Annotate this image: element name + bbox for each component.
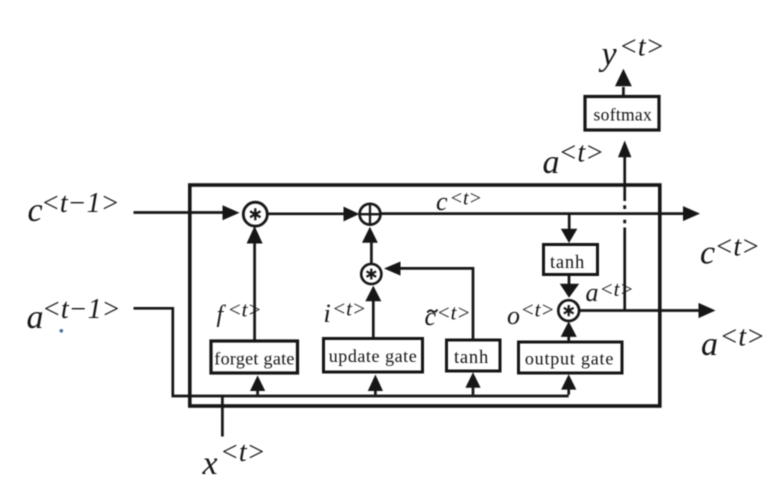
svg-text:<t>: <t> — [715, 232, 761, 263]
label: c^<t-1> (left input) — [28, 188, 120, 229]
wire: candidate tanh up and left into *2 — [384, 262, 473, 341]
label: a^<t> (small, at *3) — [586, 277, 634, 307]
svg-text:<t>: <t> — [521, 298, 555, 322]
svg-text:x: x — [202, 445, 218, 482]
box: softmax — [585, 97, 659, 131]
label: a^<t-1> (left input) — [27, 294, 121, 336]
svg-text:<t−1>: <t−1> — [41, 188, 119, 219]
wire: update gate up to *2 — [365, 286, 381, 339]
wire: a^<t> output line to right arrow — [579, 303, 715, 318]
label: c-tilde^<t> (candidate) — [425, 301, 471, 332]
box: tanh (right, cell output) — [544, 245, 598, 275]
svg-text:<t>: <t> — [332, 297, 366, 321]
label: o^<t> (output activation) — [507, 298, 555, 331]
wire: *1 to plus node — [267, 207, 359, 222]
node: multiply *2 — [361, 264, 381, 284]
box: tanh (candidate) — [447, 340, 501, 371]
wire: x^<t> input up to bus — [221, 396, 224, 437]
wire: output gate up to *3 — [561, 321, 577, 342]
box: forget gate — [211, 341, 298, 373]
wire: bus arrow into output gate — [561, 374, 576, 395]
node: add (circled plus) — [360, 204, 381, 225]
wire: a branch up to softmax (with dash-dot section) — [618, 141, 631, 311]
svg-text:tanh: tanh — [550, 253, 585, 273]
svg-text:<t>: <t> — [437, 301, 471, 325]
label: x^<t> (bottom input) — [202, 437, 266, 482]
svg-text:forget gate: forget gate — [214, 349, 294, 369]
wire: c^<t> output line to right arrow — [381, 206, 700, 221]
svg-text:a: a — [586, 278, 599, 307]
wire: bus arrow into forget gate — [250, 375, 265, 394]
svg-text:<t>: <t> — [220, 437, 266, 468]
svg-text:a: a — [27, 299, 44, 336]
wire: a^<t-1> input (right then down) — [134, 308, 173, 396]
svg-text:a: a — [701, 326, 718, 363]
label: a^<t> (right output, large) — [701, 322, 765, 364]
label: c^<t> (right output, large) — [700, 232, 760, 272]
wire: bus arrow into candidate tanh — [465, 372, 480, 395]
svg-text:softmax: softmax — [594, 105, 652, 125]
node: multiply *3 — [558, 300, 579, 321]
main LSTM cell box — [190, 185, 660, 406]
svg-text:<t>: <t> — [559, 138, 605, 169]
mark: small blue dot under a^<t-1> — [60, 329, 64, 333]
box: update gate — [324, 339, 423, 373]
svg-text:c: c — [436, 187, 448, 216]
svg-text:<t>: <t> — [720, 322, 766, 353]
wire: c^<t-1> input line — [134, 205, 240, 220]
svg-text:y: y — [599, 36, 618, 73]
svg-text:<t>: <t> — [619, 32, 665, 63]
label: y^<t> (top output) — [599, 32, 665, 74]
svg-text:<t>: <t> — [450, 188, 483, 210]
svg-text:i: i — [324, 299, 331, 328]
svg-text:<t−1>: <t−1> — [42, 294, 120, 325]
node: multiply *1 — [243, 202, 267, 226]
wire: forget gate up to *1 — [247, 226, 263, 341]
box: output gate — [519, 342, 623, 373]
wire: right tanh down to *3 — [560, 275, 579, 298]
svg-text:a: a — [543, 144, 560, 181]
svg-text:tanh: tanh — [454, 348, 489, 368]
svg-text:c: c — [700, 235, 715, 272]
wire: c line down into right tanh — [561, 215, 578, 243]
label: f^<t> (forget activation) — [217, 298, 262, 329]
wire: bottom bus feeding gates — [172, 395, 569, 398]
svg-text:f: f — [217, 302, 227, 328]
wire: *2 up to plus node — [362, 227, 378, 264]
wire: bus arrow into update gate — [368, 375, 383, 395]
wire: softmax up to y^<t> — [615, 69, 632, 97]
svg-text:c: c — [425, 302, 437, 331]
label: i^<t> (update activation) — [324, 297, 367, 329]
svg-text:output gate: output gate — [525, 349, 614, 369]
svg-text:update gate: update gate — [329, 346, 418, 366]
label: a^<t> (near softmax) — [543, 138, 605, 182]
svg-text:o: o — [507, 301, 520, 330]
svg-text:<t>: <t> — [600, 277, 634, 301]
svg-text:<t>: <t> — [228, 298, 262, 322]
label: c^<t> (small, above line) — [436, 187, 482, 216]
